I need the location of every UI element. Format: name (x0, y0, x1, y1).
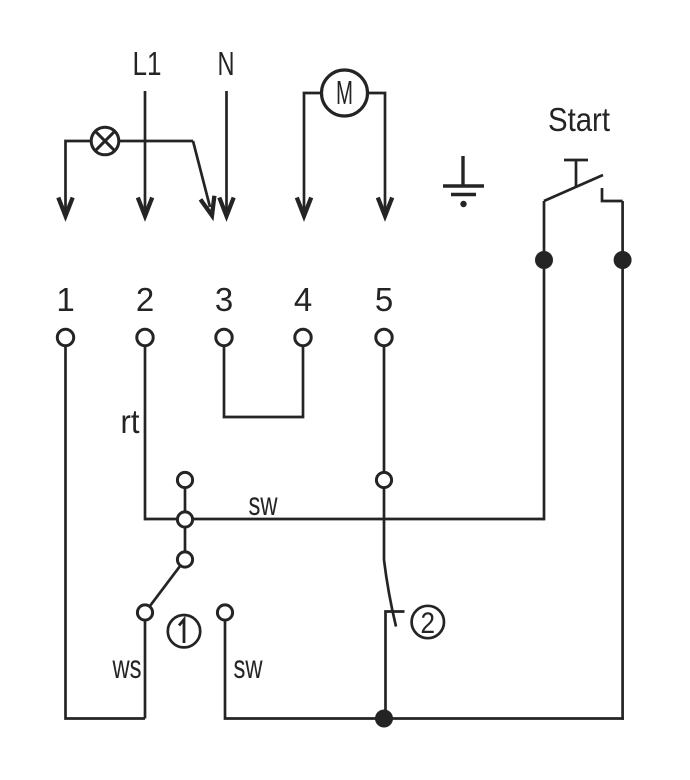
wire terminal 1 down (66, 346, 146, 719)
switch 1 blade (150, 566, 181, 607)
terminal 5 circle (376, 329, 392, 345)
switch 1 top circle (177, 472, 192, 487)
terminal 4 circle (295, 329, 311, 345)
svg-text:2: 2 (136, 281, 154, 318)
svg-text:sw: sw (249, 485, 278, 522)
arrow motor right (378, 198, 392, 217)
junction dot start left (535, 251, 553, 269)
wire sw horizontal (145, 518, 544, 521)
wire motor left (304, 93, 322, 211)
switch 1 lower circle (177, 552, 192, 567)
wire bottom (384, 717, 624, 720)
wire N feed (225, 91, 228, 211)
arrow diagonal (200, 196, 219, 217)
switch 2 upper circle (376, 472, 391, 487)
wire bridge terminals 3-4 (224, 346, 303, 417)
switch 1 contact sw circle (217, 605, 232, 620)
svg-text:M: M (336, 74, 353, 111)
wire lamp right (119, 140, 193, 143)
svg-text:2: 2 (421, 607, 436, 640)
svg-text:1: 1 (56, 281, 74, 318)
arrow L1 (138, 198, 152, 217)
ground (443, 156, 484, 207)
svg-text:3: 3 (215, 281, 233, 318)
svg-text:sw: sw (234, 648, 263, 685)
junction dot bottom (375, 710, 393, 728)
pushbutton blade (544, 175, 603, 201)
svg-text:L1: L1 (133, 45, 162, 82)
switch 2 fixed contact (386, 612, 405, 719)
wire terminal 2 down (rt) (144, 346, 147, 521)
terminal 3 circle (216, 329, 232, 345)
switch 2 wire down (383, 488, 386, 560)
wire terminal 5 down (383, 346, 386, 473)
switch 1 contact ws circle (137, 605, 152, 620)
svg-text:5: 5 (375, 281, 393, 318)
svg-text:N: N (218, 45, 235, 82)
switch 1 link bottom (184, 527, 187, 552)
circled 1 (168, 615, 200, 647)
switch 1 middle circle (177, 512, 192, 527)
pushbutton fixed contact hook (602, 188, 623, 201)
wire start right (621, 201, 624, 720)
svg-text:4: 4 (294, 281, 312, 318)
junction dot start right (614, 251, 632, 269)
wire start left (543, 201, 546, 520)
arrow N (219, 198, 233, 217)
arrow motor left (297, 198, 311, 217)
motor U1 (322, 70, 368, 116)
circled 2 (412, 606, 444, 638)
wire ws down (144, 620, 147, 718)
svg-text:Start: Start (548, 101, 610, 138)
lamp (91, 127, 119, 155)
pushbutton actuator (564, 160, 588, 186)
terminal 1 circle (57, 329, 73, 345)
wire diagonal branch (193, 141, 210, 207)
wire motor right (368, 93, 386, 211)
svg-text:rt: rt (121, 403, 140, 440)
switch 1 link top (184, 488, 187, 512)
arrow lamp left (58, 198, 72, 217)
terminal 2 circle (137, 329, 153, 345)
wire lamp left (66, 141, 92, 211)
wire sw contact down (225, 620, 384, 718)
wire L1 feed (144, 91, 147, 211)
switch 2 blade (384, 560, 396, 627)
svg-text:ws: ws (112, 648, 142, 685)
